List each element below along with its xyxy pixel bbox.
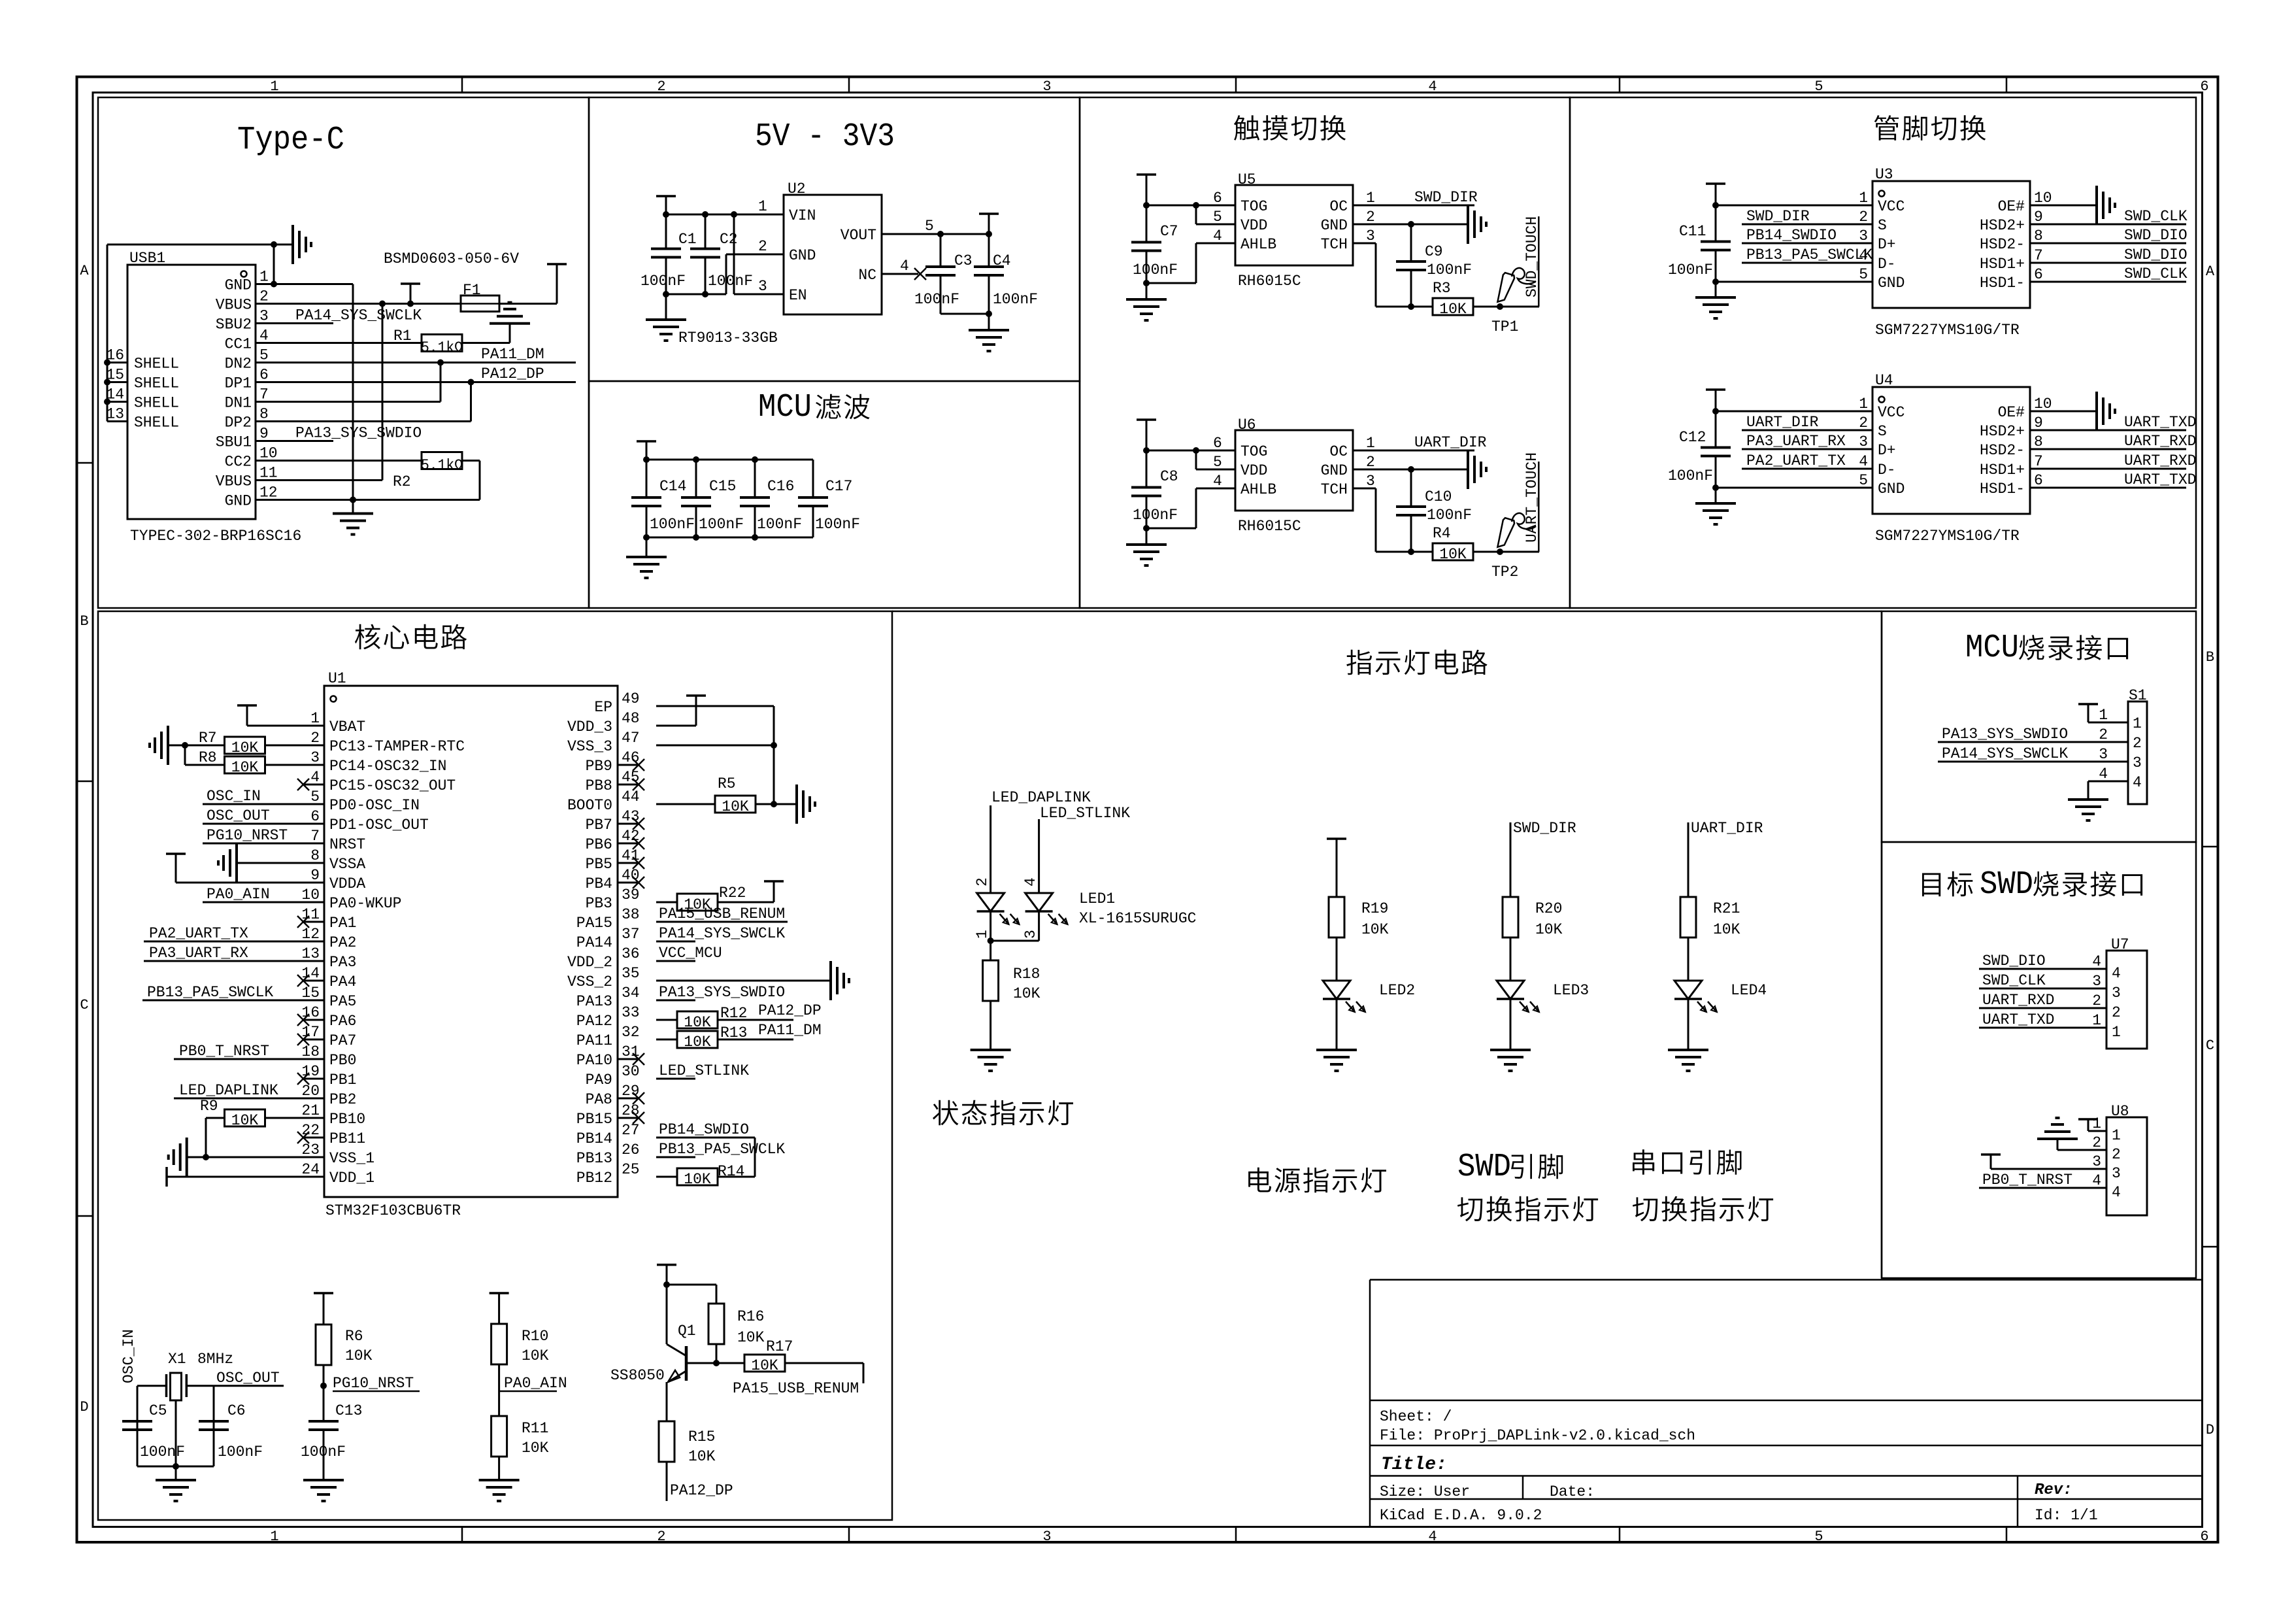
earth ground U6 [1468, 450, 1486, 489]
svg-text:LED4: LED4 [1731, 982, 1767, 999]
svg-text:TCH: TCH [1321, 481, 1348, 498]
junction bot C16 [752, 534, 758, 541]
wire U7 UART_TXD [1979, 1027, 2106, 1029]
svg-text:PC13-TAMPER-RTC: PC13-TAMPER-RTC [329, 738, 465, 755]
net label PA0_AIN [207, 886, 270, 903]
wire UART_TXD [2030, 487, 2186, 489]
label U8 [2111, 1103, 2129, 1120]
label USB1 value [130, 528, 301, 545]
svg-text:PA12: PA12 [576, 1013, 612, 1030]
power flag VDD3 [686, 696, 706, 726]
LED LED1a [977, 893, 1020, 924]
wire SWD_CLK [2030, 281, 2186, 283]
svg-text:2: 2 [2092, 1134, 2101, 1151]
net label UART_TXD [2124, 471, 2196, 488]
svg-text:1: 1 [758, 198, 767, 215]
junction C8 bottom [1143, 525, 1150, 532]
svg-text:C11: C11 [1679, 223, 1706, 240]
svg-text:RT9013-33GB: RT9013-33GB [678, 329, 778, 346]
title block id [2035, 1507, 2098, 1524]
wire VCC [1716, 205, 1872, 207]
label R18 [1013, 966, 1040, 983]
svg-text:UART_TXD: UART_TXD [2124, 471, 2196, 488]
connector U8 [2106, 1117, 2147, 1215]
svg-text:2: 2 [657, 78, 665, 95]
net label SWD_CLK [2124, 265, 2188, 282]
net label UART_RXD [2124, 452, 2196, 469]
svg-text:1: 1 [2099, 707, 2108, 724]
svg-text:10K: 10K [722, 798, 749, 815]
svg-text:UART_DIR: UART_DIR [1746, 414, 1819, 431]
resistor R12 10K [677, 1011, 718, 1031]
svg-text:RH6015C: RH6015C [1238, 273, 1301, 290]
svg-text:MCU: MCU [758, 389, 812, 426]
svg-text:8: 8 [310, 847, 320, 864]
label R22 [719, 885, 746, 902]
svg-text:AHLB: AHLB [1240, 481, 1276, 498]
title block kicad [1380, 1507, 1542, 1524]
label R16 value [737, 1329, 765, 1346]
svg-text:AHLB: AHLB [1240, 236, 1276, 253]
svg-text:7: 7 [310, 828, 320, 845]
svg-text:100nF: 100nF [301, 1443, 346, 1460]
svg-text:2: 2 [657, 1528, 665, 1545]
title swd-LED CJK [1457, 1149, 1598, 1221]
svg-text:SWD_CLK: SWD_CLK [1982, 972, 2046, 989]
wire SWD_DIO [2030, 262, 2186, 264]
svg-text:PA2_UART_TX: PA2_UART_TX [1746, 452, 1846, 469]
svg-text:11: 11 [259, 465, 278, 482]
junction GND pin12 [350, 497, 356, 503]
wire AHLB [1146, 488, 1235, 528]
pin 4 LED1b [1022, 877, 1039, 886]
title MCU-prog [1965, 630, 2128, 667]
net label PA12_DP [481, 365, 544, 382]
title status-LED CJK [933, 1100, 1073, 1126]
svg-text:PB14_SWDIO: PB14_SWDIO [1746, 227, 1837, 244]
svg-text:GND: GND [1878, 275, 1905, 292]
svg-text:C10: C10 [1425, 488, 1452, 505]
svg-text:1: 1 [270, 78, 278, 95]
svg-text:PB0: PB0 [329, 1052, 356, 1069]
svg-text:1: 1 [259, 269, 269, 286]
junction shell 14 [104, 399, 110, 405]
label R20 [1535, 900, 1562, 917]
svg-text:F1: F1 [463, 282, 481, 299]
resistor R20 10K [1503, 897, 1518, 937]
net label SWD_DIR [1746, 208, 1810, 225]
svg-text:A: A [2206, 263, 2215, 280]
wire PG10_NRST pin7 [203, 843, 324, 845]
wire OSC_IN pin5 [203, 803, 324, 805]
svg-text:10K: 10K [1361, 921, 1389, 938]
junction C10 bottom [1408, 548, 1414, 555]
label C12 [1679, 429, 1706, 446]
label R1 [393, 328, 412, 345]
wire VDDA pin9 [176, 854, 324, 883]
svg-text:SWD: SWD [1980, 866, 2033, 903]
svg-text:10K: 10K [1439, 546, 1467, 563]
svg-text:PA0-WKUP: PA0-WKUP [329, 895, 401, 912]
svg-text:32: 32 [622, 1024, 640, 1041]
wire OE# [2030, 205, 2097, 207]
svg-text:PB10: PB10 [329, 1111, 365, 1128]
label LED1 [1079, 890, 1115, 907]
wire U8 pin1 [2088, 1119, 2106, 1131]
svg-text:C: C [2206, 1038, 2214, 1054]
label C13 [335, 1402, 362, 1419]
svg-text:12: 12 [301, 926, 320, 943]
label U6 value [1238, 518, 1301, 535]
svg-text:OSC_OUT: OSC_OUT [207, 807, 270, 824]
wire PB0 pin18 [174, 1058, 324, 1060]
svg-text:R20: R20 [1535, 900, 1562, 917]
svg-text:PA14: PA14 [576, 934, 612, 951]
wire PB13 pin26 [656, 1156, 695, 1158]
svg-text:C9: C9 [1425, 243, 1443, 260]
svg-text:1: 1 [974, 930, 991, 939]
capacitor C1 [651, 214, 681, 294]
wire PA9 pin30 [656, 1078, 695, 1080]
svg-text:U3: U3 [1875, 166, 1893, 183]
capacitor C14 [631, 460, 661, 537]
svg-text:DN1: DN1 [225, 395, 252, 412]
net label PA2_UART_TX [1746, 452, 1846, 469]
label TP1 [1491, 318, 1518, 335]
svg-text:UART_TXD: UART_TXD [2124, 414, 2196, 431]
label R11 [522, 1420, 548, 1437]
svg-text:3: 3 [2092, 973, 2101, 990]
ground LED4 [1668, 1050, 1708, 1071]
svg-text:C16: C16 [767, 478, 794, 495]
net label PA13_SYS_SWDIO [295, 425, 422, 442]
svg-text:10K: 10K [1535, 921, 1563, 938]
svg-text:10K: 10K [231, 759, 259, 776]
svg-text:PA14_SYS_SWCLK: PA14_SYS_SWCLK [1942, 745, 2068, 762]
power flag C11 [1706, 184, 1725, 205]
svg-text:D: D [80, 1399, 88, 1415]
frame column ticks [462, 77, 2006, 1543]
label R19 [1361, 900, 1388, 917]
wire to R16 [667, 1285, 716, 1304]
svg-text:VSS_1: VSS_1 [329, 1150, 374, 1167]
wire R7 [185, 745, 324, 747]
wire VDD [1196, 205, 1235, 224]
capacitor C5 [122, 1399, 152, 1466]
wire C3 C4 gnd rail [940, 313, 989, 315]
label U5 [1238, 171, 1256, 188]
net label LED_DAPLINK [179, 1082, 278, 1099]
svg-text:R6: R6 [345, 1328, 363, 1345]
connector S1 [2088, 701, 2147, 804]
svg-text:DP2: DP2 [225, 414, 252, 431]
svg-text:3: 3 [1366, 473, 1375, 490]
net label PA0_AIN2 [499, 1375, 567, 1392]
wire VDD_3 pin48 [656, 725, 696, 727]
wire filter top rail [646, 459, 813, 461]
svg-text:38: 38 [622, 906, 640, 923]
svg-text:100nF: 100nF [218, 1443, 263, 1460]
label R2 [393, 473, 411, 490]
junction C12 bottom [1712, 484, 1719, 491]
wire U8 pin2 [2057, 1139, 2106, 1150]
label U6 [1238, 416, 1256, 433]
label R14 [718, 1163, 744, 1180]
transistor Q1 SS8050 [667, 1285, 716, 1382]
ground LED3 [1490, 1050, 1531, 1071]
frame column numbers [270, 78, 2208, 1545]
svg-text:X1: X1 [168, 1351, 186, 1368]
wire R9 [206, 1118, 324, 1157]
label R8 [199, 749, 217, 766]
wire PA2_UART_TX [1742, 468, 1872, 470]
power flag VBUS [401, 284, 420, 304]
svg-text:10K: 10K [345, 1347, 373, 1364]
label R9 [200, 1098, 218, 1115]
label R17 [766, 1338, 793, 1355]
wire LED1a down [990, 911, 991, 941]
svg-text:35: 35 [622, 965, 640, 982]
net label PB14_SWDIO [1746, 227, 1837, 244]
capacitor C2 [690, 214, 720, 294]
svg-text:100nF: 100nF [1427, 262, 1472, 278]
wire to R18 [990, 941, 991, 960]
label U1 value [325, 1202, 461, 1219]
wire OSC_OUT pin6 [203, 823, 324, 825]
svg-text:10K: 10K [684, 1034, 711, 1051]
wire R20 LED3 [1510, 937, 1512, 981]
LED LED3 [1497, 981, 1539, 1012]
power flag VBAT [237, 705, 257, 726]
svg-text:USB1: USB1 [129, 250, 165, 267]
wire PB3 pin39 [656, 902, 677, 903]
svg-text:R1: R1 [393, 328, 412, 345]
svg-text:100nF: 100nF [1133, 507, 1178, 524]
net label PA11_DM2 [758, 1022, 822, 1039]
wire GND pin2 [1353, 224, 1468, 226]
svg-text:8: 8 [2034, 433, 2043, 450]
wire PA3 pin13 [144, 960, 324, 962]
svg-text:100nF: 100nF [1668, 467, 1713, 484]
wire PB14_SWDIO [1742, 243, 1872, 245]
title block title [1381, 1455, 1447, 1475]
wire R4 out [1473, 551, 1539, 553]
wire U7 SWD_DIO [1979, 968, 2106, 970]
svg-text:PB5: PB5 [586, 856, 612, 873]
svg-text:5V - 3V3: 5V - 3V3 [755, 118, 895, 156]
resistor R15 10K [659, 1421, 674, 1462]
wire PB14 pin27 [656, 1138, 755, 1177]
svg-text:4: 4 [1859, 453, 1868, 470]
label R4 [1433, 525, 1451, 542]
svg-text:PD1-OSC_OUT: PD1-OSC_OUT [329, 817, 429, 834]
resistor R18 10K [983, 960, 999, 1001]
svg-text:U6: U6 [1238, 416, 1256, 433]
svg-text:PC15-OSC32_OUT: PC15-OSC32_OUT [329, 777, 456, 794]
svg-text:36: 36 [622, 945, 640, 962]
net label U7 UART_RXD [1982, 992, 2054, 1009]
net label PA15_USB_RENUM2 [733, 1380, 859, 1397]
label C10 [1425, 488, 1452, 505]
wire UART_TXD [2030, 430, 2186, 431]
wire R14 out [718, 1176, 755, 1178]
label C11 [1679, 223, 1706, 240]
wire LED4 gnd [1688, 999, 1689, 1050]
svg-text:SWD_DIO: SWD_DIO [2124, 246, 2188, 263]
junction R5 gnd [771, 801, 777, 807]
net label PB14_SWDIO [659, 1121, 749, 1138]
label R6 [345, 1328, 363, 1345]
junction DP [468, 379, 474, 386]
wire VDD_1 pin24 [167, 1176, 324, 1178]
svg-text:STM32F103CBU6TR: STM32F103CBU6TR [325, 1202, 461, 1219]
junction C9 top [1408, 221, 1414, 228]
svg-text:R8: R8 [199, 749, 217, 766]
section box 5V-3V3 [589, 97, 1080, 381]
junction bot C14 [643, 534, 650, 541]
wire TCH [1353, 488, 1411, 552]
svg-text:4: 4 [1428, 78, 1437, 95]
svg-text:SGM7227YMS10G/TR: SGM7227YMS10G/TR [1875, 322, 2020, 339]
svg-text:4: 4 [2112, 965, 2121, 982]
wire R16 base [716, 1344, 718, 1363]
LED LED2 [1323, 981, 1365, 1012]
wire PB12 pin25 [656, 1176, 677, 1178]
junction shell 16 [104, 360, 110, 366]
wire AHLB [1146, 243, 1235, 283]
wire EP pin49 [656, 705, 774, 707]
net label SWD_DIR [1414, 189, 1478, 206]
svg-text:PA3_UART_RX: PA3_UART_RX [149, 945, 248, 962]
svg-text:File: ProPrj_DAPLink-v2.0.kica: File: ProPrj_DAPLink-v2.0.kicad_sch [1380, 1427, 1695, 1444]
label C6 value [218, 1443, 263, 1460]
power flag 3V3 [979, 214, 999, 234]
svg-text:9: 9 [310, 867, 320, 884]
wire EP down [773, 706, 775, 804]
svg-text:TOG: TOG [1240, 198, 1267, 215]
svg-text:GND: GND [225, 277, 252, 294]
wire R15 PA12 [666, 1462, 668, 1501]
ground LED2 [1316, 1050, 1357, 1071]
svg-text:U4: U4 [1875, 372, 1893, 389]
touch IC U5 RH6015C [1213, 185, 1375, 265]
ground GND12 [333, 500, 373, 535]
resistor R17 10K [744, 1355, 785, 1374]
wire PB2 pin20 [174, 1098, 324, 1100]
capacitor C10 [1396, 469, 1426, 552]
power flag VDD1 [165, 1167, 168, 1187]
svg-text:SWD_CLK: SWD_CLK [2124, 265, 2188, 282]
svg-text:LED3: LED3 [1553, 982, 1589, 999]
svg-text:PA10: PA10 [576, 1052, 612, 1069]
net label UART_TXD [2124, 414, 2196, 431]
svg-text:3: 3 [259, 308, 269, 325]
svg-text:PA13: PA13 [576, 993, 612, 1010]
frame row letters [80, 263, 2215, 1438]
wire R11 gnd [498, 1457, 500, 1480]
resistor R14 10K [677, 1168, 718, 1188]
svg-text:VBAT: VBAT [329, 718, 365, 735]
svg-text:PA3_UART_RX: PA3_UART_RX [1746, 433, 1846, 450]
svg-text:6: 6 [2200, 1528, 2208, 1545]
label R21 value [1713, 921, 1740, 938]
svg-text:PG10_NRST: PG10_NRST [207, 827, 288, 844]
wire SBU1 pin9 [256, 440, 333, 442]
svg-text:B: B [80, 613, 88, 630]
svg-text:1: 1 [1859, 396, 1868, 413]
junction Q1 top [663, 1281, 670, 1288]
label U7 [2111, 936, 2129, 953]
resistor R8 10K [225, 756, 265, 776]
svg-text:10K: 10K [688, 1448, 716, 1465]
svg-text:6: 6 [259, 367, 269, 384]
svg-text:10: 10 [301, 886, 320, 903]
svg-text:Date:: Date: [1550, 1483, 1595, 1500]
svg-text:30: 30 [622, 1063, 640, 1080]
svg-text:GND: GND [1321, 462, 1348, 479]
svg-text:Type-C: Type-C [237, 122, 344, 159]
junction C7 top [1143, 202, 1150, 209]
net label PB0_T_NRST [179, 1043, 269, 1060]
svg-text:PG10_NRST: PG10_NRST [333, 1375, 414, 1392]
net label UART_TOUCH [1523, 452, 1540, 552]
svg-text:UART_DIR: UART_DIR [1691, 820, 1763, 837]
wire F1 to 5V [499, 264, 557, 304]
svg-text:Title:: Title: [1381, 1455, 1447, 1475]
label U5 value [1238, 273, 1301, 290]
svg-text:PB13: PB13 [576, 1150, 612, 1167]
svg-text:LED_DAPLINK: LED_DAPLINK [991, 789, 1091, 806]
wire SBU2 pin3 [256, 322, 333, 324]
resistor R22 10K [677, 894, 718, 913]
svg-text:SWD_DIR: SWD_DIR [1746, 208, 1810, 225]
label C14 value [650, 516, 695, 533]
net label LED_STLINK2 [1040, 805, 1130, 822]
label C1 value [641, 273, 686, 290]
svg-text:PD0-OSC_IN: PD0-OSC_IN [329, 797, 420, 814]
junction VBUS a [379, 301, 386, 307]
wire base R17 [716, 1362, 745, 1364]
svg-text:2: 2 [758, 238, 767, 255]
svg-text:NRST: NRST [329, 836, 365, 853]
wire R8 [185, 745, 324, 765]
net label PA13_SYS_SWDIO2 [659, 984, 785, 1001]
wire PA2 pin12 [144, 941, 324, 943]
svg-text:SHELL: SHELL [134, 375, 179, 392]
label R12 [720, 1005, 747, 1022]
wire CC1 pin4 [256, 342, 422, 344]
net label PB13_PA5_SWCLK [147, 984, 273, 1001]
svg-text:1: 1 [2112, 1024, 2121, 1041]
svg-text:4: 4 [2099, 766, 2108, 783]
frame row ticks [77, 463, 2218, 1247]
svg-text:37: 37 [622, 926, 640, 943]
label C15 value [699, 516, 744, 533]
net label LED_STLINK [659, 1062, 749, 1079]
resistor R5 10K [715, 796, 756, 815]
title LED CJK [1346, 650, 1487, 675]
wire emitter [666, 1382, 668, 1421]
ground R18 [971, 1050, 1011, 1071]
svg-text:OSC_IN: OSC_IN [207, 788, 261, 805]
earth ground top [274, 225, 311, 264]
earth ground R7R8 [150, 726, 185, 765]
svg-text:6: 6 [1213, 190, 1222, 207]
power flag U8 pin3 [1981, 1153, 2001, 1156]
power flag 5V [547, 263, 567, 265]
svg-text:SGM7227YMS10G/TR: SGM7227YMS10G/TR [1875, 528, 2020, 545]
label C17 value [815, 516, 860, 533]
